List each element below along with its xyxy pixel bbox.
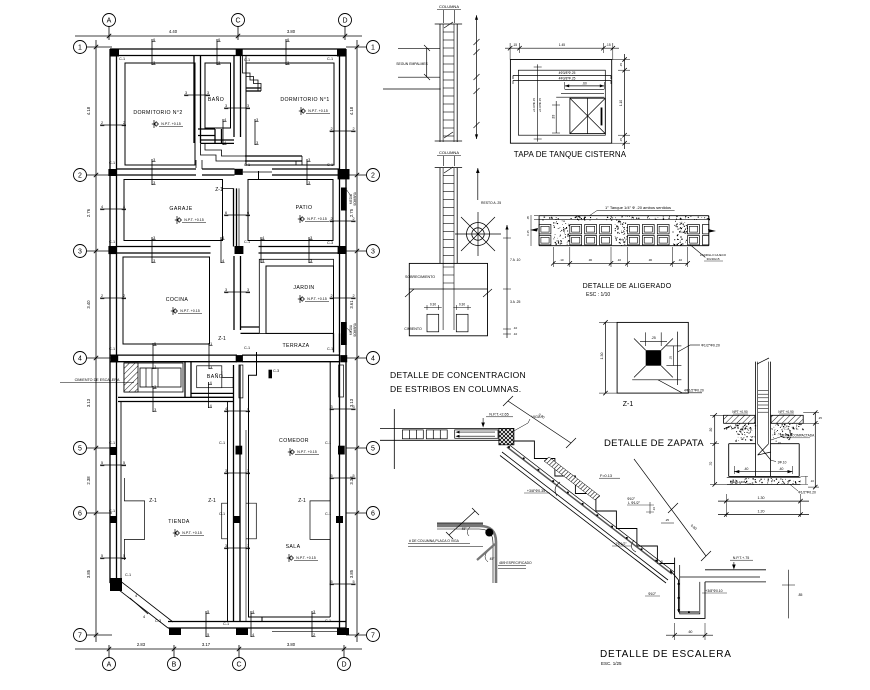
- svg-text:5: 5: [101, 461, 103, 465]
- svg-text:C: C: [236, 661, 241, 668]
- sobrecimiento box: [409, 263, 487, 335]
- svg-text:4: 4: [210, 381, 212, 385]
- svg-text:Z-1: Z-1: [215, 187, 223, 193]
- row 3 wall: [117, 246, 211, 248]
- svg-text:N.P.T. +0.15: N.P.T. +0.15: [297, 450, 316, 454]
- svg-text:3.85: 3.85: [349, 569, 354, 578]
- column corner A7: [110, 578, 122, 591]
- Z-1 corner diagonals: [634, 339, 646, 351]
- svg-text:1.30: 1.30: [758, 496, 765, 500]
- grid circle B bottom: [168, 658, 181, 671]
- svg-text:3Φ.10: 3Φ.10: [778, 461, 787, 465]
- right grid circles 1-7: [367, 41, 380, 54]
- aligerado slab top band: [539, 215, 709, 217]
- svg-text:DETALLE DE ALIGERADO: DETALLE DE ALIGERADO: [583, 283, 672, 290]
- column C-1 at D6: [336, 516, 343, 523]
- svg-text:COLUMNA: COLUMNA: [439, 150, 459, 155]
- exterior wall bottom: [168, 621, 346, 623]
- svg-text:1: 1: [78, 44, 82, 51]
- svg-text:3: 3: [313, 610, 315, 614]
- svg-text:.40: .40: [779, 467, 784, 471]
- svg-text:5: 5: [330, 580, 332, 584]
- svg-text:TIERRA COMPACTADA: TIERRA COMPACTADA: [780, 434, 815, 438]
- column C-3 small: [269, 370, 273, 379]
- stirrup target symbol: [472, 228, 484, 240]
- svg-text:1.45: 1.45: [559, 43, 565, 47]
- banio-C wall: [233, 56, 235, 138]
- svg-text:.25: .25: [651, 336, 656, 340]
- svg-text:N.P.T. +0.15: N.P.T. +0.15: [180, 309, 199, 313]
- Z-1 left dim: [605, 322, 607, 393]
- svg-text:N.P.T. +0.15: N.P.T. +0.15: [307, 297, 326, 301]
- column detail 2 vertical rebar: [435, 167, 462, 169]
- svg-text:GARAJE: GARAJE: [169, 206, 192, 212]
- svg-text:SOMBRA: SOMBRA: [353, 322, 357, 337]
- svg-text:3: 3: [218, 61, 220, 65]
- svg-text:2: 2: [123, 121, 125, 125]
- column C-1 at C4: [236, 355, 243, 362]
- svg-text:2: 2: [330, 217, 332, 221]
- svg-text:B: B: [172, 661, 177, 668]
- stair bottom shaft: [675, 558, 705, 619]
- svg-text:3: 3: [371, 248, 375, 255]
- svg-text:4: 4: [252, 610, 254, 614]
- exterior wall right: [339, 49, 341, 628]
- svg-text:# DE COLUMNA,PLACA O VIGA: # DE COLUMNA,PLACA O VIGA: [409, 539, 460, 543]
- svg-text:2: 2: [78, 172, 82, 179]
- left grid circles 1-7: [74, 41, 87, 54]
- svg-text:.25: .25: [669, 355, 673, 360]
- stair bottom dim: [674, 623, 676, 640]
- svg-text:.40: .40: [744, 467, 749, 471]
- cimiento anchor rects: [427, 314, 439, 332]
- svg-text:4.18: 4.18: [349, 106, 354, 115]
- column detail 2 spacing dims: [506, 225, 508, 338]
- svg-text:C-1: C-1: [109, 441, 115, 445]
- svg-text:3: 3: [153, 181, 155, 185]
- svg-text:4Φ3/8”Φ.25: 4Φ3/8”Φ.25: [559, 71, 576, 75]
- svg-text:3: 3: [310, 236, 312, 240]
- column C-1 at D1: [337, 49, 346, 57]
- svg-text:RESTO A .25: RESTO A .25: [481, 201, 501, 205]
- svg-text:4: 4: [143, 615, 145, 619]
- svg-text:Z-1: Z-1: [208, 498, 216, 504]
- svg-text:7 A .10: 7 A .10: [510, 258, 520, 262]
- svg-text:C-1: C-1: [219, 512, 225, 516]
- svg-text:DETALLE DE ESCALERA: DETALLE DE ESCALERA: [600, 649, 732, 660]
- dormitorio1 closet jog: [243, 56, 259, 92]
- svg-text:30x30x15: 30x30x15: [706, 257, 719, 261]
- tanque cisterna hatch box: [570, 98, 605, 133]
- zapata bar hooks: [758, 444, 771, 460]
- svg-text:NPT +0.90: NPT +0.90: [778, 410, 793, 414]
- svg-text:1° Tanque 1/4” Φ .20 ambos sen: 1° Tanque 1/4” Φ .20 ambos sentidos: [605, 205, 671, 210]
- svg-text:3: 3: [247, 469, 249, 473]
- svg-text:2: 2: [330, 294, 332, 298]
- column C-1 at A1: [110, 49, 119, 57]
- garaje Z-1 jog: [223, 188, 234, 193]
- svg-text:C-1: C-1: [325, 619, 331, 623]
- svg-text:3: 3: [330, 405, 332, 409]
- svg-text:Z-1: Z-1: [298, 498, 306, 504]
- segun empalmes bracket: [426, 48, 428, 77]
- svg-text:+3/8”Φ0.35: +3/8”Φ0.35: [527, 489, 545, 493]
- svg-text:C-3: C-3: [155, 619, 161, 623]
- svg-text:2.83: 2.83: [137, 642, 146, 647]
- svg-text:5: 5: [123, 461, 125, 465]
- svg-text:COMEDOR: COMEDOR: [279, 438, 309, 444]
- svg-text:1: 1: [210, 342, 212, 346]
- column C-1 at C6: [233, 516, 240, 523]
- exterior wall chamfer: [110, 583, 168, 628]
- svg-text:3.85: 3.85: [86, 569, 91, 578]
- svg-text:6: 6: [247, 211, 249, 215]
- zapata column top break: [757, 358, 769, 364]
- svg-text:0.30: 0.30: [459, 303, 465, 307]
- column C-1 at A6: [110, 516, 117, 523]
- zapata subbase speckle: [737, 424, 740, 427]
- svg-text:5: 5: [207, 610, 209, 614]
- column C-1 at A4: [111, 355, 119, 362]
- right dimension line: [356, 40, 358, 642]
- svg-text:3.80: 3.80: [287, 642, 296, 647]
- svg-text:6: 6: [218, 38, 220, 42]
- bottom dimension line: [75, 648, 362, 650]
- svg-text:SOMBRA: SOMBRA: [353, 191, 357, 206]
- svg-text:NPT +0.90: NPT +0.90: [732, 410, 747, 414]
- grid circle D bottom: [338, 658, 351, 671]
- svg-text:.10: .10: [513, 326, 518, 330]
- stair viga hatch block: [499, 428, 514, 444]
- svg-text:.10: .10: [617, 258, 622, 262]
- svg-text:3: 3: [310, 259, 312, 263]
- column C-1 at D2: [338, 169, 350, 179]
- svg-text:ESC. 1/25: ESC. 1/25: [601, 661, 622, 666]
- svg-text:4: 4: [222, 259, 224, 263]
- svg-text:0.30: 0.30: [430, 303, 436, 307]
- comedor-sala finish rect: [249, 352, 263, 622]
- svg-text:C-1: C-1: [327, 347, 333, 351]
- svg-text:N.P.T.+.75: N.P.T.+.75: [733, 556, 749, 560]
- column C-1 at D7: [337, 628, 349, 635]
- svg-text:N.P.T. +0.15: N.P.T. +0.15: [296, 556, 315, 560]
- garaje finish rect: [124, 180, 223, 241]
- dormitorio2 finish rect: [125, 63, 195, 165]
- stair foundation hatch: [124, 363, 138, 392]
- svg-text:4: 4: [225, 407, 227, 411]
- svg-text:.10: .10: [513, 332, 518, 336]
- svg-text:C-1: C-1: [125, 573, 131, 577]
- svg-text:.15: .15: [777, 441, 781, 445]
- svg-text:+3/8”Φ0.10: +3/8”Φ0.10: [705, 589, 722, 593]
- svg-text:.25: .25: [818, 416, 822, 420]
- svg-text:.30: .30: [588, 258, 593, 262]
- svg-text:.25: .25: [665, 518, 670, 522]
- wall below banio2: [118, 396, 233, 398]
- zapata outline Z-1 middle: [222, 503, 228, 539]
- left dimension line: [95, 40, 97, 642]
- svg-text:3: 3: [154, 385, 156, 389]
- zapata outline Z-1 left: [124, 478, 144, 560]
- svg-text:45°: 45°: [490, 557, 496, 561]
- svg-text:5: 5: [371, 445, 375, 452]
- svg-text:.60: .60: [688, 630, 693, 634]
- Z-1 inner crossing lines: [677, 332, 679, 385]
- svg-text:5: 5: [154, 342, 156, 346]
- svg-text:5: 5: [330, 474, 332, 478]
- svg-text:JARDIN: JARDIN: [293, 285, 314, 291]
- svg-text:1.20: 1.20: [758, 509, 765, 513]
- svg-text:3: 3: [225, 288, 227, 292]
- exterior wall left: [109, 49, 111, 583]
- svg-text:3: 3: [256, 141, 258, 145]
- stair landing rebar: [680, 576, 760, 578]
- svg-text:.10: .10: [678, 258, 683, 262]
- svg-text:4: 4: [101, 205, 103, 209]
- svg-text:+0.97Φ.15: +0.97Φ.15: [538, 98, 542, 112]
- svg-text:4Φ1/2”Φ0.20: 4Φ1/2”Φ0.20: [684, 389, 704, 393]
- svg-text:C-1: C-1: [109, 347, 115, 351]
- column detail 1 vertical rebar: [435, 23, 462, 25]
- svg-text:D: D: [342, 17, 347, 24]
- svg-text:3.17: 3.17: [202, 642, 211, 647]
- svg-text:.05: .05: [526, 216, 530, 220]
- svg-text:3: 3: [78, 248, 82, 255]
- stair rebar diagonal: [507, 447, 672, 574]
- column C-1 at C7: [236, 628, 248, 635]
- svg-text:Φ1/2”: Φ1/2”: [648, 592, 656, 596]
- svg-text:Z-1: Z-1: [623, 401, 634, 408]
- bend detail lower diagonal bar: [477, 544, 495, 560]
- aligerado side arrows: [530, 228, 538, 232]
- stair steps: [514, 441, 675, 564]
- row4-5 stair foundation: [124, 363, 183, 392]
- svg-text:45°: 45°: [462, 527, 468, 531]
- chamfer section marker: [130, 598, 148, 614]
- svg-text:N.P.T. +0.15: N.P.T. +0.15: [184, 218, 203, 222]
- grid circle C bottom: [233, 658, 246, 671]
- svg-text:5: 5: [207, 633, 209, 637]
- svg-text:4.40: 4.40: [169, 29, 178, 34]
- svg-text:5: 5: [352, 474, 354, 478]
- svg-text:C-1: C-1: [119, 57, 125, 61]
- tanque cisterna outer rect: [510, 60, 611, 144]
- svg-text:DETALLE DE CONCENTRACION: DETALLE DE CONCENTRACION: [390, 370, 526, 380]
- pilaster below D4 column: [339, 365, 344, 397]
- svg-text:ESC : 1/10: ESC : 1/10: [586, 292, 610, 298]
- svg-text:C-1: C-1: [109, 240, 115, 244]
- svg-text:3 A .25: 3 A .25: [510, 300, 520, 304]
- svg-text:3: 3: [154, 408, 156, 412]
- svg-text:C-1: C-1: [244, 240, 250, 244]
- stair soffit lines: [502, 452, 668, 580]
- zapata right dim: [814, 413, 816, 488]
- svg-text:2: 2: [352, 217, 354, 221]
- svg-text:48Φ ESPECIFICADO: 48Φ ESPECIFICADO: [499, 561, 532, 565]
- svg-text:2.76: 2.76: [86, 208, 91, 217]
- banio lower maze walls: [198, 128, 215, 130]
- svg-text:C-1: C-1: [327, 57, 333, 61]
- svg-text:SOLADO: SOLADO: [733, 480, 746, 484]
- svg-text:Z-1: Z-1: [218, 336, 226, 342]
- svg-text:6: 6: [225, 211, 227, 215]
- svg-text:Φ1/2”Φ0.20: Φ1/2”Φ0.20: [798, 491, 816, 495]
- svg-text:4: 4: [224, 141, 226, 145]
- svg-text:3: 3: [225, 544, 227, 548]
- svg-text:3: 3: [153, 158, 155, 162]
- svg-text:A: A: [107, 661, 112, 668]
- svg-text:N.P.T.+2.65: N.P.T.+2.65: [489, 413, 508, 417]
- svg-text:Φ1/2”: Φ1/2”: [627, 497, 635, 501]
- tanque cisterna top dim: [505, 47, 619, 49]
- svg-text:5: 5: [352, 580, 354, 584]
- aligerado bottom dims: [553, 262, 687, 264]
- zapata bottom dim 1.20: [718, 514, 809, 516]
- resto arrow: [477, 168, 479, 200]
- bend detail curve: [437, 526, 496, 583]
- svg-text:4: 4: [78, 355, 82, 362]
- svg-text:4: 4: [252, 633, 254, 637]
- zapata footing rect: [729, 443, 756, 445]
- svg-text:F=0.13: F=0.13: [600, 474, 612, 478]
- row 2 wall: [117, 168, 197, 170]
- Z-1 black column square: [646, 350, 662, 366]
- patio jog: [248, 179, 259, 188]
- zapata .40 dims: [733, 466, 735, 474]
- svg-text:C-1: C-1: [244, 163, 250, 167]
- zapata bottom dim 1.30: [725, 494, 727, 517]
- svg-text:3: 3: [308, 181, 310, 185]
- svg-text:Z-1: Z-1: [149, 498, 157, 504]
- svg-text:N.P.T. +0.15: N.P.T. +0.15: [307, 217, 326, 221]
- tanque cisterna vert dim: [537, 64, 539, 141]
- svg-text:DETALLE DE ZAPATA: DETALLE DE ZAPATA: [604, 438, 704, 449]
- svg-text:5: 5: [123, 554, 125, 558]
- zapata column bars: [755, 362, 757, 477]
- svg-text:4Φ3/8”Φ.25: 4Φ3/8”Φ.25: [559, 77, 576, 81]
- svg-text:2: 2: [352, 294, 354, 298]
- jardin enclosure: [259, 259, 333, 333]
- svg-text:C-3: C-3: [273, 369, 279, 373]
- svg-text:CIMIENTO: CIMIENTO: [404, 327, 422, 331]
- svg-text:C-1: C-1: [109, 509, 115, 513]
- svg-text:SALA: SALA: [286, 544, 301, 550]
- svg-text:C: C: [235, 17, 240, 24]
- stair diagonal dim line: [508, 401, 571, 443]
- svg-text:2.38: 2.38: [86, 476, 91, 485]
- stair top slab lines: [380, 427, 500, 429]
- svg-text:.10: .10: [810, 479, 814, 483]
- column C-1 at B7: [169, 628, 181, 635]
- grid circle D top: [339, 14, 352, 27]
- svg-text:3.13: 3.13: [86, 398, 91, 407]
- banio2 walls: [184, 362, 186, 398]
- banio finish rect: [205, 63, 231, 128]
- zapata leader phi label: [790, 484, 798, 491]
- svg-text:COCINA: COCINA: [166, 297, 189, 303]
- svg-text:N.P.T. +0.15: N.P.T. +0.15: [182, 531, 201, 535]
- wall dormitorio2-banio: [193, 56, 195, 144]
- svg-text:C-1: C-1: [325, 512, 331, 516]
- svg-text:3.80: 3.80: [287, 29, 296, 34]
- stair right dim: [788, 570, 790, 619]
- svg-text:2: 2: [101, 121, 103, 125]
- exterior wall top: [110, 48, 346, 50]
- svg-text:4: 4: [135, 594, 137, 598]
- svg-text:.16: .16: [652, 507, 656, 512]
- bend detail horizontal bar: [437, 523, 483, 526]
- svg-text:1.30: 1.30: [600, 353, 604, 360]
- column C-1 at C3: [235, 246, 244, 254]
- svg-text:6: 6: [287, 38, 289, 42]
- svg-text:4: 4: [262, 259, 264, 263]
- svg-text:COLUMNA: COLUMNA: [439, 4, 459, 9]
- svg-text:.30: .30: [648, 258, 653, 262]
- C wall rows2-3: [233, 188, 235, 246]
- svg-text:.15: .15: [619, 63, 623, 68]
- svg-text:3: 3: [225, 469, 227, 473]
- wall section markers vertical: [151, 39, 153, 65]
- aligerado bottom line: [539, 245, 709, 247]
- svg-text:7: 7: [371, 632, 375, 639]
- aligerado brick blocks: [539, 225, 551, 234]
- svg-text:.15: .15: [606, 43, 611, 47]
- svg-text:2: 2: [352, 127, 354, 131]
- column detail 1 wall link line: [383, 88, 441, 90]
- svg-text:3: 3: [247, 104, 249, 108]
- media sombra shading strip row3: [341, 322, 347, 345]
- shaft rebar: [670, 570, 679, 580]
- dormitorio1 finish rect: [246, 63, 334, 165]
- svg-text:3: 3: [225, 104, 227, 108]
- svg-text:DORMITORIO N°2: DORMITORIO N°2: [133, 110, 182, 116]
- svg-text:3: 3: [287, 61, 289, 65]
- svg-text:+0.97Φ.15: +0.97Φ.15: [532, 98, 536, 112]
- svg-text:.15: .15: [513, 43, 518, 47]
- pilaster below C4 column: [239, 365, 243, 398]
- svg-text:6: 6: [78, 510, 82, 517]
- svg-text:L Φ1/2”: L Φ1/2”: [628, 501, 641, 505]
- svg-text:D: D: [341, 661, 346, 668]
- svg-text:3.61: 3.61: [349, 300, 354, 309]
- column C-1 at C1: [236, 49, 243, 56]
- C wall rows3-4: [233, 256, 235, 330]
- svg-text:.60: .60: [582, 82, 587, 86]
- aligerado joist speckle: [566, 228, 567, 229]
- svg-text:4.18: 4.18: [86, 106, 91, 115]
- zapata ground hatch left: [724, 415, 755, 423]
- svg-text:0.15: 0.15: [526, 230, 530, 236]
- svg-text:2: 2: [101, 294, 103, 298]
- svg-text:2: 2: [330, 127, 332, 131]
- svg-text:7Φ1/2”: 7Φ1/2”: [615, 542, 627, 546]
- hall wall below banio: [195, 160, 197, 168]
- grid circle A top: [103, 14, 116, 27]
- bend detail filled circle: [485, 529, 493, 537]
- svg-text:3: 3: [247, 544, 249, 548]
- column C-1 at C5: [236, 446, 243, 455]
- svg-text:1.10: 1.10: [619, 100, 623, 106]
- svg-text:1: 1: [210, 365, 212, 369]
- svg-text:3: 3: [352, 405, 354, 409]
- svg-text:2: 2: [313, 633, 315, 637]
- svg-text:2: 2: [371, 172, 375, 179]
- stair top slab bricks: [402, 430, 423, 439]
- svg-text:N.P.T. +0.15: N.P.T. +0.15: [308, 109, 327, 113]
- grid circle A bottom: [103, 658, 116, 671]
- stair top duct rect: [455, 430, 498, 438]
- svg-text:4: 4: [247, 407, 249, 411]
